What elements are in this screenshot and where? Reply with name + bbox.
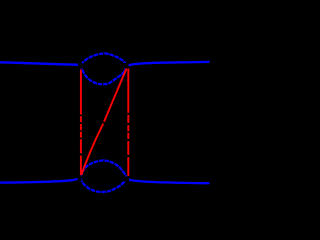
curve: top lens lower arc (dashed blue) — [81, 65, 128, 85]
curve: top lens upper arc (dashed blue) — [81, 53, 128, 65]
curve: top-right blue branch — [127, 62, 210, 66]
curve: bottom lens upper arc (dashed blue) — [81, 160, 128, 179]
line: right red vertical (segmented) — [127, 69, 129, 176]
line: red diagonal (two segments with small gap) — [82, 69, 127, 175]
curve: bottom-left blue branch — [0, 178, 81, 183]
corner knot top-left (dark gap at lens pinch) — [78, 62, 82, 68]
corner knot top-right (dark gap at lens pinch) — [124, 63, 129, 68]
corner knot bottom-left (dark gap at lens pinch) — [78, 175, 82, 181]
line: left red vertical (segmented) — [80, 70, 82, 176]
curve: top-left blue branch — [0, 62, 81, 65]
curve: bottom lens lower arc (dashed blue) — [81, 178, 128, 192]
corner knot bottom-right (dark gap at lens pinch) — [123, 176, 129, 181]
curve: bottom-right blue branch — [127, 179, 210, 183]
